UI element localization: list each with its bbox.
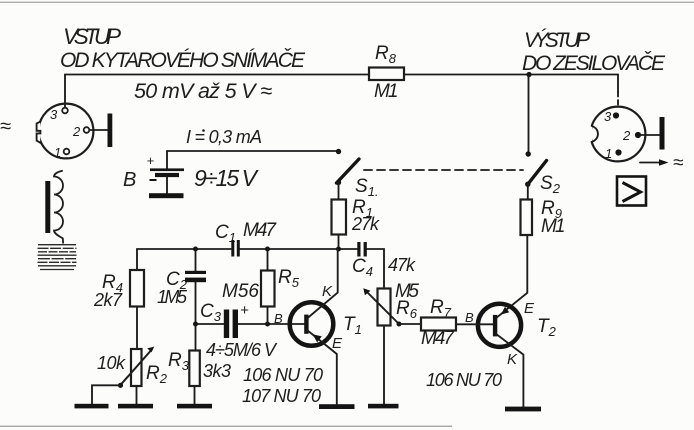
svg-text:C4: C4: [352, 256, 373, 279]
svg-text:10k: 10k: [97, 353, 126, 373]
resistor R8: [369, 68, 404, 81]
wire ganged switch dashed link: [364, 169, 523, 171]
svg-text:M1: M1: [374, 81, 399, 102]
resistor R4: [130, 270, 144, 307]
ground of battery: [149, 193, 184, 198]
potentiometer R6 body: [378, 289, 391, 326]
svg-text:+: +: [147, 153, 155, 168]
node mid rail R5 column: [265, 247, 270, 252]
svg-text:3k3: 3k3: [203, 361, 231, 381]
svg-text:VÝSTUP: VÝSTUP: [524, 29, 590, 52]
svg-text:27k: 27k: [351, 214, 380, 234]
node S2 bottom: [525, 182, 530, 187]
chassis bar input: [108, 114, 113, 148]
output DIN connector body: [586, 107, 646, 162]
wire R4 to R2: [136, 307, 138, 350]
potentiometer R2 arrow: [120, 347, 154, 386]
wire R3 top lead: [195, 324, 197, 351]
wire S1 to R1: [338, 183, 340, 200]
svg-text:4÷5M/6 V: 4÷5M/6 V: [206, 340, 278, 360]
wire C2 column upper: [195, 249, 197, 271]
pickup coil bar: [45, 181, 50, 233]
node junction top rail to S2 branch: [526, 72, 531, 77]
wire top rail from input to output bend: [65, 74, 618, 76]
svg-text:C3: C3: [200, 301, 222, 324]
scan artifact bottom border line: [0, 426, 452, 427]
capacitor C3: [224, 310, 238, 339]
svg-text:S2: S2: [540, 173, 561, 196]
pickup core hatching: [38, 245, 77, 270]
svg-text:I = 0,3 mA: I = 0,3 mA: [186, 127, 262, 147]
output connector pin 2: [635, 132, 641, 138]
transistor T2 emitter arrow: [501, 307, 509, 315]
svg-text:M47: M47: [243, 220, 277, 241]
svg-text:R3: R3: [168, 350, 190, 373]
resistor R5: [261, 271, 275, 307]
wire battery rail to S1: [167, 150, 339, 152]
output connector pin 3: [613, 112, 619, 118]
ground of R2: [118, 404, 153, 409]
wire S2 to R9: [527, 184, 529, 199]
input connector pin 1: [64, 149, 70, 155]
wire R4 riser: [136, 249, 138, 270]
potentiometer R6 wiper arrow: [363, 288, 399, 324]
wire output bend down solid: [617, 75, 619, 93]
ground of T2 collector: [505, 407, 541, 412]
node mid rail R1 C4 T1: [336, 247, 341, 252]
wire R7 to T2 base: [456, 323, 493, 325]
svg-text:3: 3: [604, 109, 612, 124]
node S2 top: [526, 151, 531, 156]
chassis bar output: [660, 117, 665, 150]
svg-text:1M5: 1M5: [157, 287, 188, 307]
potentiometer R2 body: [131, 349, 142, 386]
svg-text:R8: R8: [375, 43, 397, 66]
svg-text:B: B: [465, 310, 474, 325]
svg-text:M1: M1: [541, 216, 566, 237]
svg-text:2k7: 2k7: [93, 290, 123, 310]
svg-text:E: E: [332, 335, 343, 352]
wire mid rail right segment: [240, 248, 357, 250]
switch S2 blade: [528, 161, 547, 185]
wire C4 to R6 bend: [367, 249, 384, 289]
svg-text:T1: T1: [343, 314, 362, 337]
wire S2 branch vertical: [528, 75, 530, 154]
svg-text:B: B: [123, 169, 136, 191]
svg-text:K: K: [507, 351, 518, 368]
switch S1 blade: [337, 159, 360, 183]
wire R2 bottom lead: [136, 386, 138, 404]
ground of wiper R2: [75, 404, 109, 409]
wire mid rail left segment: [137, 248, 231, 250]
output connector pin 1: [615, 149, 621, 155]
resistor R7: [421, 318, 456, 331]
svg-text:S1.: S1.: [355, 176, 379, 199]
capacitor C4: [357, 242, 367, 257]
svg-text:107 NU 70: 107 NU 70: [242, 386, 321, 406]
svg-text:E: E: [524, 300, 535, 317]
input connector pin 3: [62, 108, 68, 114]
wire R5 top lead: [267, 249, 269, 271]
svg-text:R5: R5: [278, 267, 300, 290]
svg-text:R2: R2: [146, 363, 168, 386]
node C3 left column: [193, 322, 198, 327]
svg-text:2: 2: [622, 128, 631, 143]
amplifier symbol box: [617, 177, 646, 206]
pickup coil winding: [54, 171, 63, 244]
transistor T1 collector lead: [307, 249, 338, 319]
input DIN connector body: [31, 104, 93, 159]
svg-text:+: +: [240, 302, 249, 319]
node R6 wiper to R7: [397, 322, 402, 327]
input connector pin 2: [84, 127, 90, 133]
transistor T2 circle: [478, 304, 521, 347]
wire input pin3 riser: [64, 75, 66, 109]
label I = 0,3 mA: [186, 127, 262, 147]
svg-text:VSTUP: VSTUP: [63, 24, 121, 49]
resistor R9: [521, 200, 533, 236]
node mid rail C2 column: [193, 247, 198, 252]
resistor R1: [332, 200, 347, 235]
signal out arrow: [640, 159, 669, 166]
svg-text:OD KYTAROVÉHO SNÍMAČE: OD KYTAROVÉHO SNÍMAČE: [60, 49, 306, 72]
svg-text:≈: ≈: [673, 153, 684, 174]
wire C2 to base rail: [195, 282, 197, 324]
svg-text:2: 2: [72, 124, 81, 139]
scan artifact top border line: [0, 2, 694, 3]
wire output bend down dashed into connector: [617, 92, 619, 107]
svg-text:≈: ≈: [0, 116, 11, 138]
wire wiper to R7: [399, 323, 421, 325]
ground of R6: [368, 404, 399, 409]
transistor T1 circle: [290, 302, 334, 346]
node base R5 bottom: [265, 322, 270, 327]
wire base rail left: [196, 323, 224, 325]
node R2 wiper: [118, 383, 123, 388]
capacitor C2: [185, 271, 206, 282]
svg-text:DO ZESILOVAČE: DO ZESILOVAČE: [522, 52, 666, 75]
wire R9 to T2 emitter: [496, 235, 528, 318]
svg-text:106 NU 70: 106 NU 70: [426, 370, 502, 390]
battery B: [147, 151, 185, 193]
svg-text:50 mV až 5 V ≈: 50 mV až 5 V ≈: [134, 79, 272, 103]
svg-text:M56: M56: [222, 281, 259, 302]
transistor T1 base bar: [304, 315, 308, 334]
transistor T2 collector lead: [496, 334, 524, 407]
capacitor C1: [231, 240, 240, 257]
svg-text:9÷15 V: 9÷15 V: [194, 165, 260, 191]
wire R6 bottom to ground: [383, 326, 385, 405]
node S1 bottom: [336, 180, 341, 185]
transistor T2 base bar: [493, 315, 497, 337]
node S1 top: [336, 149, 341, 154]
wire R3 bottom lead: [194, 386, 196, 404]
ground of T1 emitter: [319, 404, 355, 409]
wire R2 wiper to ground: [92, 385, 121, 404]
transistor T1 emitter lead: [307, 330, 337, 405]
ground of R3: [177, 404, 212, 409]
resistor R3: [189, 351, 200, 387]
wire R5 bottom lead: [267, 307, 269, 325]
wire input pin2 to chassis bar: [89, 129, 107, 131]
wire base rail to T1: [238, 323, 305, 325]
svg-text:T2: T2: [537, 316, 557, 339]
transistor T1 emitter arrow: [313, 334, 322, 342]
svg-text:106 NU 70: 106 NU 70: [243, 365, 323, 385]
svg-text:47k: 47k: [388, 255, 416, 275]
wire R1 to mid rail: [338, 235, 340, 250]
wire output pin2 to chassis bar: [641, 134, 660, 136]
